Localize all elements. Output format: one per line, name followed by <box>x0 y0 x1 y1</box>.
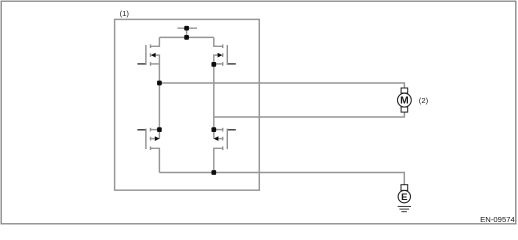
channel segments <box>222 128 224 132</box>
body link <box>214 55 218 64</box>
drain stub <box>151 129 160 131</box>
svg-text:(2): (2) <box>419 96 429 105</box>
gate lead (input) <box>137 63 145 65</box>
node: output 1 junction <box>157 81 162 86</box>
source stub <box>151 148 160 172</box>
transistor bottom-right FET <box>214 128 236 173</box>
gate bar <box>226 45 228 65</box>
wire: output 2 to motor <box>214 112 405 117</box>
gate lead (input) <box>228 129 236 131</box>
node: FET bottom-left drain junction <box>157 127 162 132</box>
transistor top-left FET <box>137 37 159 65</box>
wire: ground rail to earth <box>159 173 404 185</box>
ECU box (1) <box>115 19 260 190</box>
earth E body <box>398 190 410 202</box>
node: supply tap <box>184 26 189 31</box>
transistor top-right FET <box>214 37 236 65</box>
channel segments <box>150 128 152 132</box>
wire: drain rail <box>159 36 213 38</box>
earth E terminal <box>401 185 408 191</box>
node: drain rail junction <box>184 35 189 40</box>
source stub <box>151 63 160 65</box>
motor M body <box>398 93 412 107</box>
motor M terminal bottom <box>401 107 408 112</box>
wire: supply stub <box>178 27 198 29</box>
node: ground rail junction <box>211 170 216 175</box>
body link <box>214 130 223 139</box>
svg-text:EN-09574: EN-09574 <box>480 215 515 224</box>
gate lead (input) <box>228 63 236 65</box>
ground symbol <box>398 206 411 211</box>
drain stub <box>151 37 160 46</box>
wire: supply drop <box>186 28 188 37</box>
svg-text:M: M <box>400 96 409 107</box>
source stub <box>214 148 223 172</box>
wire: output 1 to motor <box>159 83 404 88</box>
body link <box>155 55 159 64</box>
body link <box>151 130 160 139</box>
channel segments <box>222 45 224 49</box>
svg-text:E: E <box>401 192 408 203</box>
wire: right leg <box>213 64 215 130</box>
svg-text:(1): (1) <box>120 9 130 18</box>
source stub <box>214 63 223 65</box>
node: FET top-right source junction <box>211 62 216 67</box>
gate lead (input) <box>137 129 145 131</box>
transistor bottom-left FET <box>137 128 159 173</box>
body arrow <box>214 136 219 141</box>
drain stub <box>214 37 223 46</box>
body arrow <box>151 53 156 58</box>
gate bar <box>145 129 147 150</box>
channel segments <box>150 45 152 49</box>
wire: left leg <box>158 64 160 130</box>
motor M terminal top <box>401 88 408 93</box>
node: FET bottom-right drain junction <box>211 127 216 132</box>
body arrow <box>218 53 223 58</box>
gate bar <box>145 45 147 65</box>
gate bar <box>226 129 228 150</box>
body arrow <box>155 136 160 141</box>
drain stub <box>214 129 223 131</box>
